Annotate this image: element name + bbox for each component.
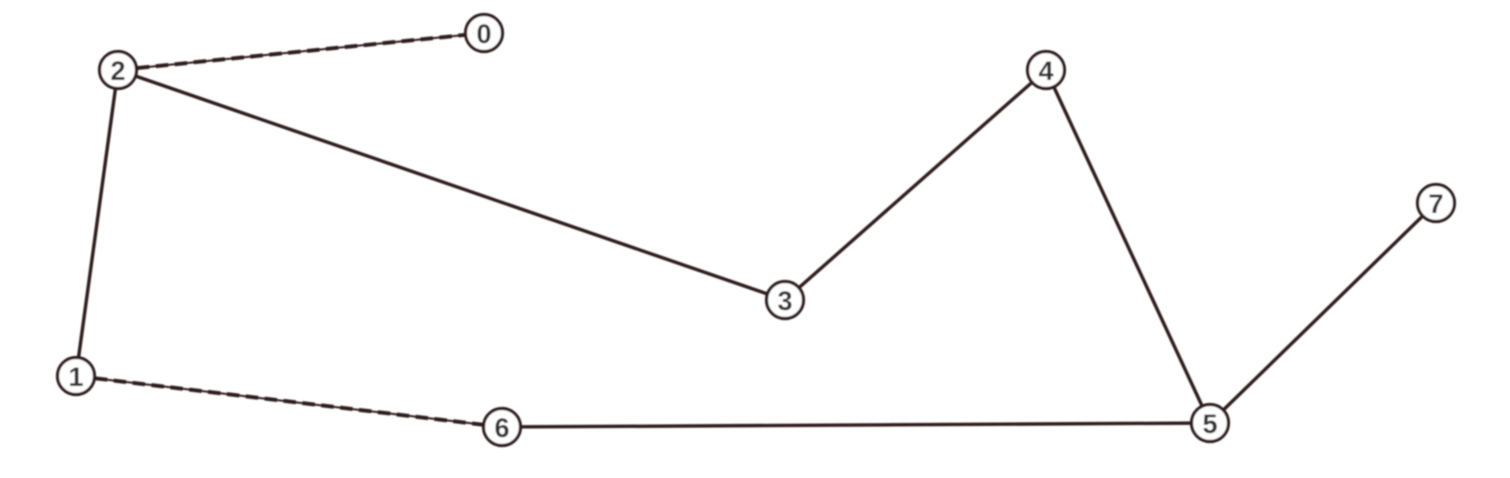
svg-text:1: 1 [68, 362, 83, 392]
svg-text:7: 7 [1428, 189, 1443, 219]
svg-text:3: 3 [777, 286, 792, 316]
svg-text:2: 2 [110, 56, 125, 86]
svg-text:0: 0 [476, 19, 491, 49]
svg-text:5: 5 [1202, 409, 1217, 439]
svg-text:6: 6 [494, 413, 509, 443]
svg-text:4: 4 [1038, 56, 1053, 86]
